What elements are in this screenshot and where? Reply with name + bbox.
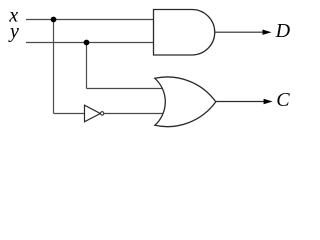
- wire OR output to C: [216, 101, 265, 103]
- wire y branch horizontal to OR input 1: [87, 88, 173, 90]
- OR gate U2: [155, 77, 216, 127]
- inverter bubble: [101, 112, 104, 115]
- svg-text:y: y: [8, 20, 19, 42]
- wire AND output to D: [215, 31, 264, 33]
- wire inverter output to OR input 2: [104, 113, 172, 115]
- wire x branch vertical: [53, 20, 55, 114]
- svg-text:C: C: [276, 89, 290, 111]
- wire y branch vertical: [86, 43, 88, 89]
- arrowhead D: [263, 30, 272, 35]
- inverter (NOT gate) triangle: [85, 105, 101, 122]
- wire x branch horizontal to inverter input: [54, 113, 86, 115]
- junction dot on y wire: [84, 40, 90, 46]
- junction dot on x wire: [51, 17, 57, 23]
- arrowhead C: [264, 99, 273, 104]
- wire x horizontal to AND input 1: [26, 19, 154, 21]
- svg-text:D: D: [275, 20, 291, 42]
- wire y horizontal to AND input 2: [26, 42, 154, 44]
- AND gate U1: [154, 10, 215, 56]
